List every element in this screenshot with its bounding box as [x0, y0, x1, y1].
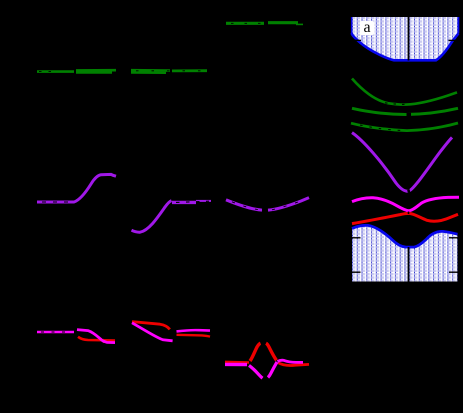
purple band col3 shallow V right arm	[268, 198, 309, 211]
red band col4	[352, 213, 458, 223]
magenta band col3 right flat with bump	[278, 360, 304, 362]
green parabola col4	[352, 79, 457, 105]
purple V col4	[352, 133, 452, 192]
green band col1 right segment (double)	[76, 69, 116, 72]
top hatch blue boundary	[352, 33, 459, 60]
top hatched region fill	[352, 17, 459, 60]
red band col3 diamond: peak	[250, 343, 261, 361]
magenta band col4	[352, 197, 459, 211]
red band col3 diamond: left flat	[225, 361, 249, 364]
black gap at V vertex	[408, 189, 411, 193]
magenta band col2 bottom left	[132, 323, 173, 341]
black gap in band2 center	[407, 113, 412, 116]
green band col3 right segment	[268, 21, 298, 24]
black dash overlay purple col2 flat	[176, 201, 209, 202]
magenta band col3 left flat	[225, 363, 247, 367]
purple band col1	[37, 174, 116, 202]
black dash overlay band3	[360, 125, 407, 131]
magenta band col3 diamond: valley	[249, 365, 263, 378]
green band col2 left segment (double)	[131, 69, 170, 72]
black dash overlay on purple col1 flat	[42, 201, 72, 203]
green band col3 left segment	[226, 22, 264, 25]
red band col1 bottom	[78, 337, 104, 340]
top hatch left tick	[352, 39, 361, 41]
purple band col3 shallow V left arm	[226, 200, 262, 210]
green band col2 right segment	[172, 69, 207, 72]
red band col2 bottom left	[132, 322, 170, 330]
top hatch right edge blue	[457, 17, 459, 33]
magenta band col2 bottom right	[177, 330, 211, 331]
green band3 col4	[351, 123, 458, 131]
top hatch right tick	[449, 39, 459, 41]
black dash overlay magenta col1	[41, 331, 72, 333]
bottom hatch blue boundary	[352, 225, 458, 247]
top hatch center vertical line	[408, 17, 410, 61]
bottom hatch center vertical line	[408, 247, 410, 282]
black dash overlay purple col3	[232, 202, 258, 210]
black dash overlay green col2	[136, 70, 204, 72]
purple band col2 rising curve	[132, 201, 172, 233]
black dash overlay on green col1	[39, 71, 56, 73]
label a box	[360, 21, 374, 35]
bottom hatch right ticks	[449, 237, 458, 239]
purple band col2 flat top	[172, 201, 196, 204]
magenta band col1 bottom flat	[37, 331, 74, 334]
bottom hatch left ticks	[352, 237, 361, 239]
black dash overlay parabola	[385, 103, 410, 105]
top hatch left edge blue	[351, 17, 353, 34]
bottom hatched region fill	[352, 225, 458, 281]
red band col2 bottom right	[177, 335, 211, 337]
green band col1 left segment	[37, 70, 74, 73]
green band2 col4	[352, 108, 458, 114]
magenta curve col1 bottom	[77, 330, 115, 343]
black gap between magenta and red center	[408, 212, 410, 215]
red band col3 right flat	[278, 363, 309, 366]
black dash overlay green col3	[231, 22, 261, 24]
